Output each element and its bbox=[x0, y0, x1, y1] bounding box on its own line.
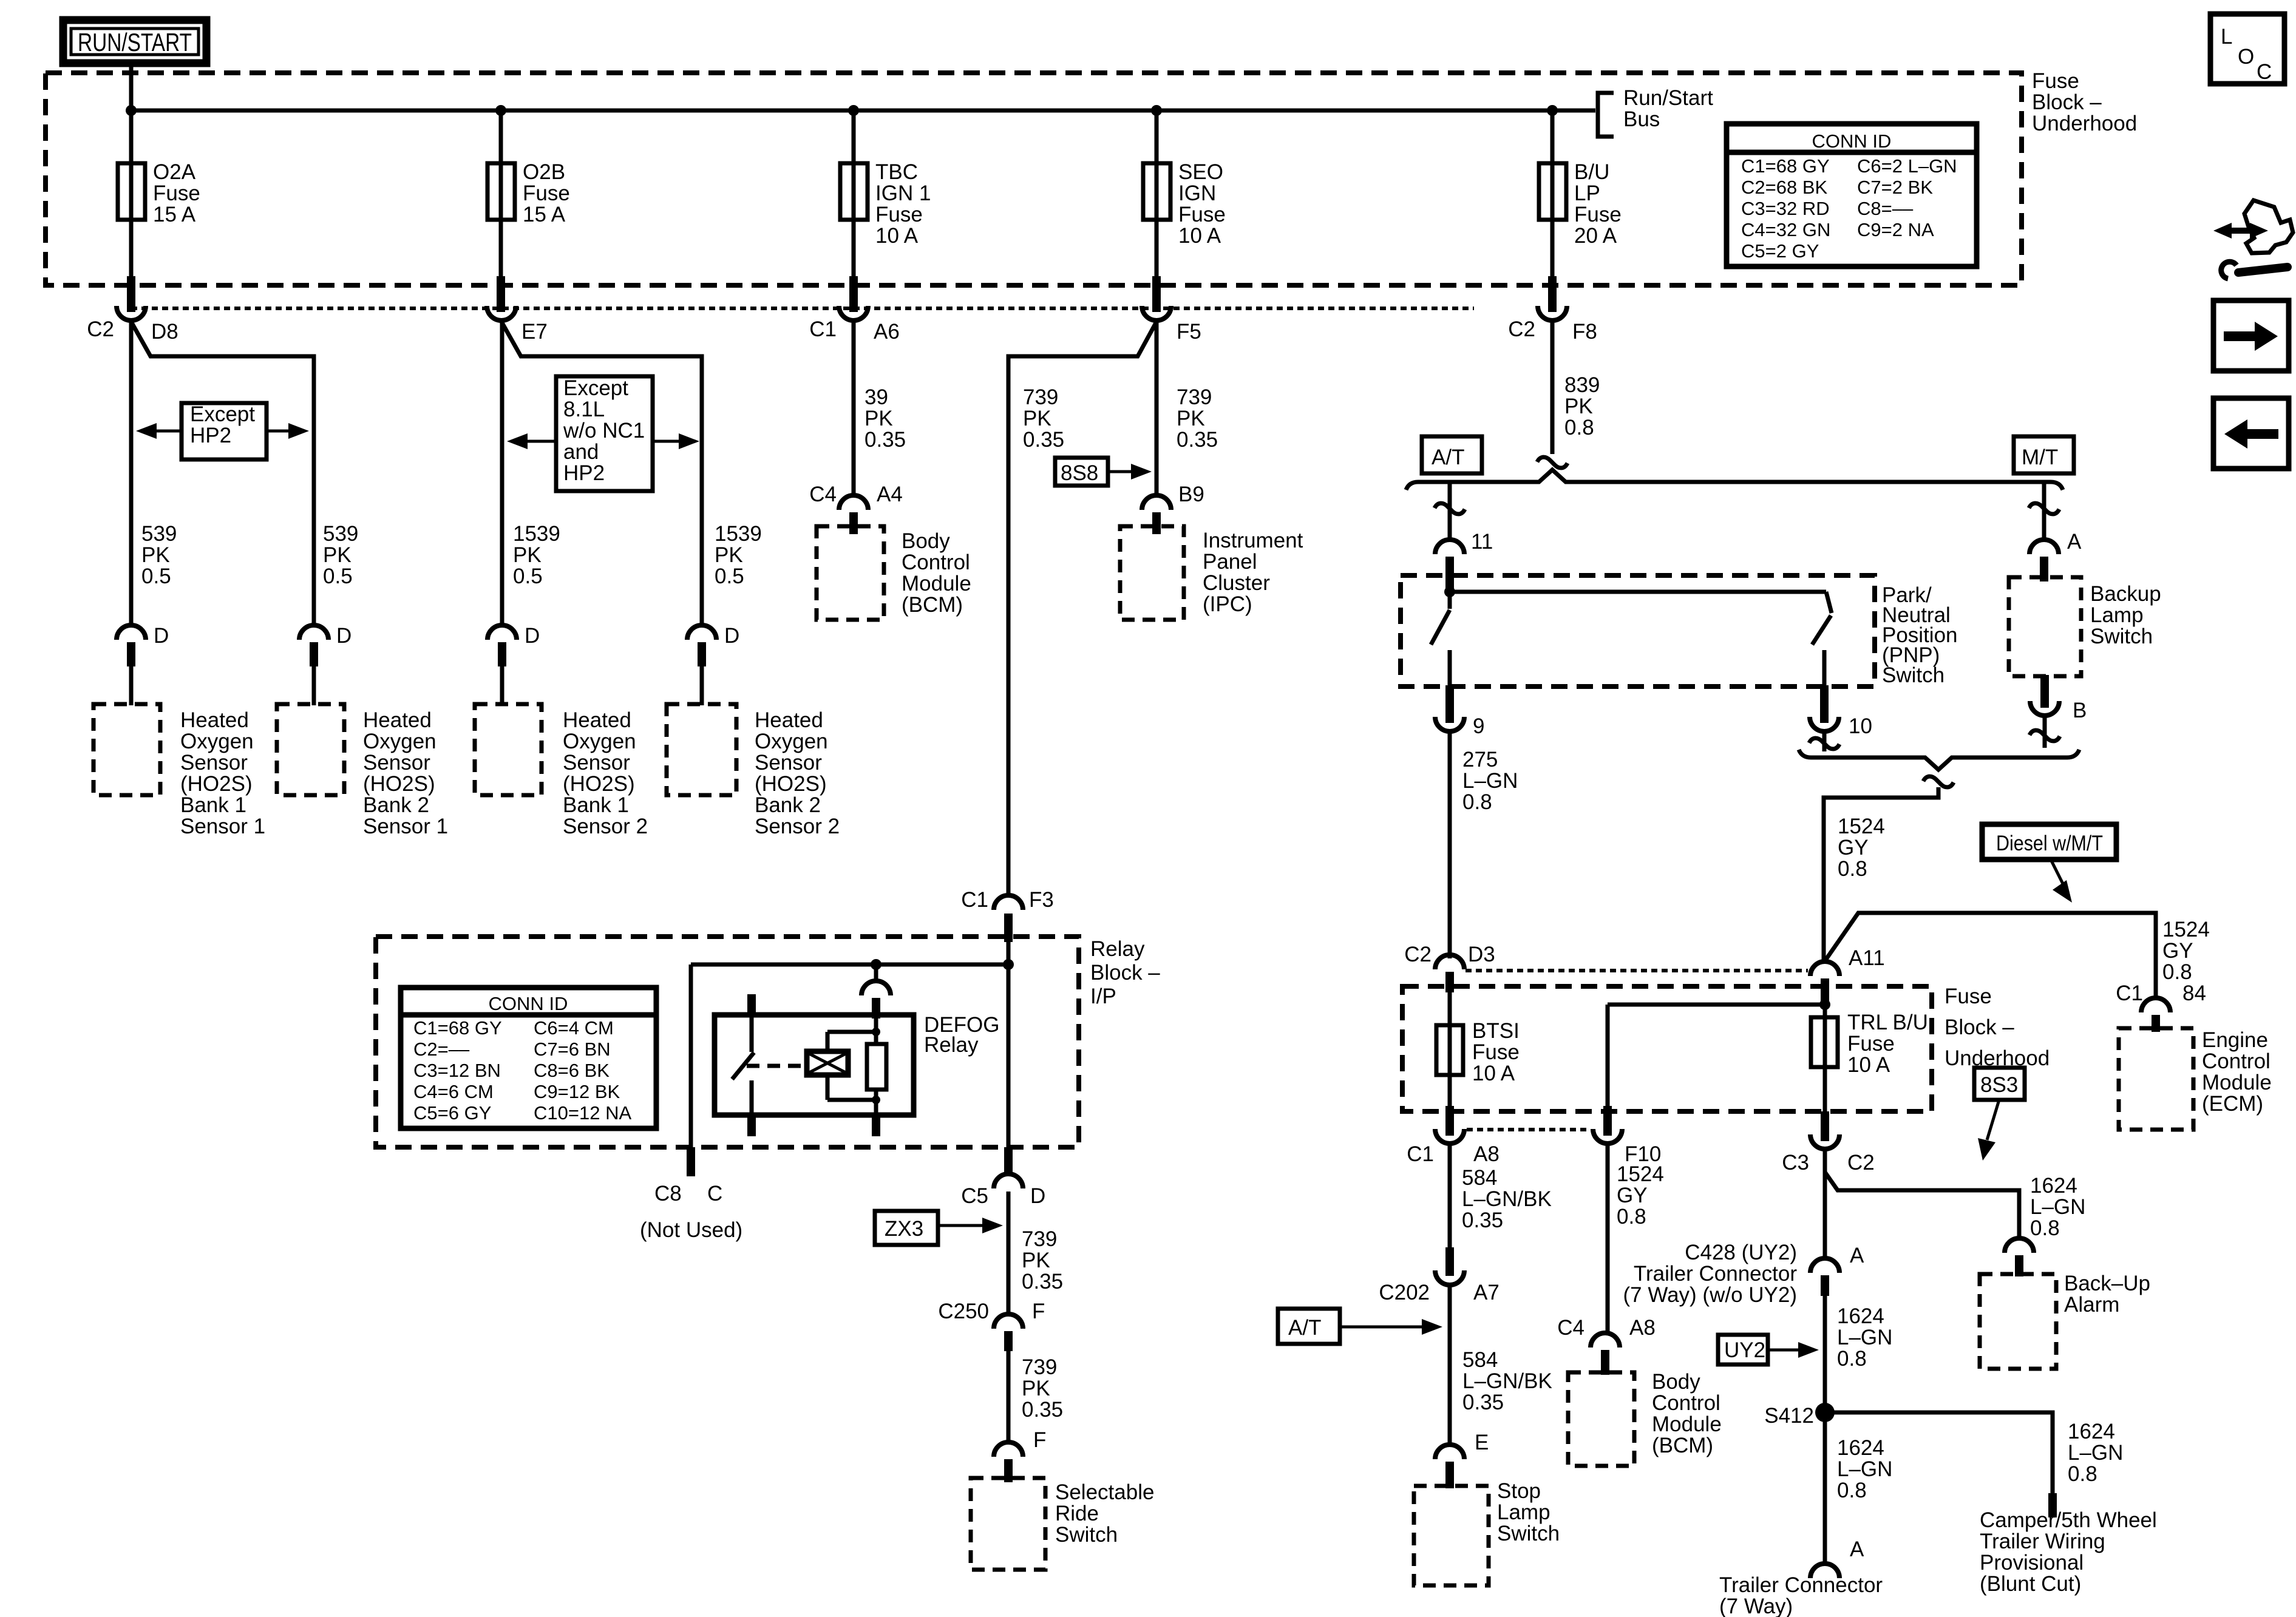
svg-text:C5=2 GY: C5=2 GY bbox=[1741, 240, 1819, 262]
svg-text:GY: GY bbox=[1838, 836, 1869, 859]
svg-text:C5=6 GY: C5=6 GY bbox=[413, 1102, 491, 1124]
connector stub below fuse SEO bbox=[1152, 276, 1161, 312]
svg-text:0.8: 0.8 bbox=[2068, 1462, 2097, 1486]
svg-text:C8=––: C8=–– bbox=[1857, 198, 1914, 219]
svg-text:Sensor 2: Sensor 2 bbox=[755, 815, 840, 838]
svg-text:F: F bbox=[1033, 1428, 1046, 1452]
DEFOG relay rectangle bbox=[715, 1015, 914, 1115]
svg-text:S412: S412 bbox=[1764, 1404, 1814, 1428]
svg-text:Oxygen: Oxygen bbox=[180, 730, 254, 753]
connector 9 cup bbox=[1435, 717, 1464, 731]
arrow A/T 2 bbox=[1340, 1326, 1427, 1329]
break M/T leg bbox=[2029, 503, 2059, 514]
svg-text:Engine: Engine bbox=[2202, 1028, 2268, 1052]
svg-text:Fuse: Fuse bbox=[1847, 1032, 1895, 1056]
svg-text:PK: PK bbox=[1564, 395, 1593, 418]
junction node A11 bbox=[1819, 999, 1830, 1010]
svg-text:D3: D3 bbox=[1468, 943, 1495, 966]
svg-text:(HO2S): (HO2S) bbox=[363, 772, 435, 796]
connector C3/C2 cup bbox=[1810, 1134, 1839, 1149]
connector D cup (col 2) bbox=[299, 625, 328, 640]
svg-text:0.5: 0.5 bbox=[715, 564, 744, 588]
svg-text:1524: 1524 bbox=[2162, 918, 2210, 941]
wire F8 down bbox=[1550, 322, 1555, 454]
wire M/T leg bbox=[2042, 482, 2046, 540]
arrow 8S3 bbox=[1987, 1100, 1999, 1140]
svg-text:A4: A4 bbox=[877, 483, 903, 506]
svg-text:Bank 1: Bank 1 bbox=[563, 793, 629, 817]
junction node PNP input bbox=[1444, 586, 1455, 597]
connector A cup (bottom) bbox=[1810, 1564, 1839, 1578]
svg-text:C3=12 BN: C3=12 BN bbox=[413, 1060, 501, 1081]
wire main inside relay block bbox=[1007, 942, 1011, 1149]
connector A cup (backup lamp) bbox=[2029, 540, 2059, 554]
svg-text:Lamp: Lamp bbox=[1497, 1500, 1550, 1524]
connector A cup (trailer) bbox=[1810, 1258, 1839, 1273]
svg-text:B/U: B/U bbox=[1574, 160, 1609, 184]
wire F10 down to BCM bbox=[1606, 1145, 1610, 1334]
svg-text:Fuse: Fuse bbox=[1472, 1040, 1520, 1064]
arrow 8S8 bbox=[1108, 470, 1136, 473]
svg-text:C1=68 GY: C1=68 GY bbox=[1741, 155, 1830, 177]
wire S412 down bbox=[1823, 1412, 1827, 1565]
svg-text:Module: Module bbox=[1652, 1412, 1722, 1436]
stub A trailer bbox=[1821, 1275, 1829, 1296]
svg-text:Block –: Block – bbox=[1090, 961, 1160, 985]
connector B cup bbox=[2030, 701, 2059, 716]
svg-text:10: 10 bbox=[1849, 714, 1872, 738]
svg-text:ZX3: ZX3 bbox=[885, 1217, 923, 1241]
connector F8 cup bbox=[1538, 306, 1567, 320]
svg-text:275: 275 bbox=[1462, 748, 1498, 771]
wire C202 down to E bbox=[1448, 1287, 1452, 1446]
svg-text:Lamp: Lamp bbox=[2090, 603, 2144, 627]
svg-text:C4: C4 bbox=[1557, 1316, 1584, 1340]
svg-text:1539: 1539 bbox=[513, 522, 560, 546]
wire diesel branch bbox=[1824, 913, 2156, 999]
svg-text:Body: Body bbox=[1652, 1370, 1700, 1394]
svg-text:C: C bbox=[2257, 60, 2272, 84]
svg-text:Bank 2: Bank 2 bbox=[363, 793, 429, 817]
relay switch blade bbox=[732, 1053, 754, 1079]
svg-text:Heated: Heated bbox=[755, 708, 823, 732]
relay block I/P dashed box bbox=[376, 937, 1079, 1147]
wire C250 to ride switch bbox=[1007, 1351, 1011, 1443]
svg-text:A7: A7 bbox=[1473, 1281, 1500, 1304]
svg-text:A8: A8 bbox=[1473, 1142, 1500, 1166]
instrument panel cluster IPC dashed box bbox=[1120, 526, 1184, 620]
svg-text:I/P: I/P bbox=[1090, 985, 1116, 1008]
connector C4/A4 cup bbox=[839, 495, 868, 510]
wire RUN/START to bus bbox=[129, 63, 134, 110]
A/T tag box 2 bbox=[1278, 1309, 1340, 1344]
backup lamp switch dashed box bbox=[2009, 577, 2081, 676]
junction node coil tap bbox=[871, 959, 881, 970]
svg-text:0.35: 0.35 bbox=[1022, 1398, 1063, 1422]
svg-text:(IPC): (IPC) bbox=[1203, 592, 1252, 616]
svg-text:C2: C2 bbox=[1404, 943, 1432, 966]
svg-text:L–GN: L–GN bbox=[2068, 1441, 2123, 1465]
A/T tag box bbox=[1422, 436, 1482, 473]
svg-text:D: D bbox=[336, 624, 352, 648]
hand with wrench icon bbox=[2222, 228, 2260, 234]
BTSI fuse bbox=[1436, 1025, 1463, 1075]
bus junction dots bbox=[126, 105, 137, 116]
connector C1/84 cup bbox=[2141, 998, 2170, 1012]
junction node main/relay bbox=[1003, 959, 1014, 970]
wire coil tap down bbox=[874, 964, 878, 981]
svg-text:739: 739 bbox=[1177, 385, 1212, 409]
svg-text:0.8: 0.8 bbox=[1617, 1205, 1646, 1229]
stub back-up alarm bbox=[2015, 1255, 2023, 1276]
svg-text:Backup: Backup bbox=[2090, 582, 2161, 606]
PNP right switch blade bbox=[1812, 615, 1831, 645]
svg-text:D: D bbox=[154, 624, 169, 648]
svg-text:739: 739 bbox=[1022, 1355, 1057, 1379]
connector boundary dotted line (A8-F10) bbox=[1467, 1128, 1591, 1131]
svg-text:CONN ID: CONN ID bbox=[1812, 131, 1892, 152]
svg-text:C5: C5 bbox=[961, 1184, 988, 1208]
svg-text:0.35: 0.35 bbox=[864, 428, 906, 452]
svg-text:Camper/5th Wheel: Camper/5th Wheel bbox=[1980, 1508, 2157, 1532]
svg-text:IGN 1: IGN 1 bbox=[875, 181, 931, 205]
wire branch D8 to bank2 sensor1 bbox=[131, 322, 314, 626]
wire main trailer down bbox=[1823, 1151, 1827, 1259]
wire C2/D8 down to sensor 1 bbox=[129, 322, 134, 626]
wire C3/C2 branch to alarm bbox=[1825, 1151, 2019, 1239]
svg-text:C3: C3 bbox=[1782, 1151, 1809, 1175]
svg-text:8.1L: 8.1L bbox=[563, 398, 605, 421]
svg-text:and: and bbox=[563, 440, 599, 464]
connector stub below fuse O2A bbox=[127, 276, 135, 312]
stub C8 leg bbox=[687, 1147, 695, 1176]
svg-text:10 A: 10 A bbox=[1472, 1062, 1515, 1085]
PNP right switch bend bbox=[1826, 592, 1832, 613]
svg-text:F: F bbox=[1032, 1300, 1045, 1323]
svg-text:1524: 1524 bbox=[1617, 1162, 1664, 1186]
svg-text:Sensor: Sensor bbox=[363, 751, 430, 775]
wire fuse drop at x=825 bbox=[499, 110, 503, 280]
connector C250/F cup bbox=[994, 1314, 1023, 1329]
stub 9 bbox=[1445, 685, 1454, 723]
svg-text:0.35: 0.35 bbox=[1177, 428, 1218, 452]
S412 splice dot bbox=[1815, 1403, 1835, 1422]
svg-text:0.8: 0.8 bbox=[1837, 1347, 1867, 1371]
svg-text:Sensor 1: Sensor 1 bbox=[363, 815, 448, 838]
svg-text:0.8: 0.8 bbox=[2030, 1216, 2060, 1240]
svg-text:GY: GY bbox=[1617, 1184, 1648, 1207]
fuse SEO IGN Fuse 10 A bbox=[1143, 163, 1170, 220]
svg-text:Module: Module bbox=[2202, 1071, 2272, 1094]
stub C4/A8 BCM bbox=[1601, 1350, 1609, 1375]
svg-text:L: L bbox=[2221, 25, 2232, 49]
ZX3 tag box bbox=[875, 1211, 938, 1245]
svg-text:10 A: 10 A bbox=[875, 224, 919, 248]
svg-text:Body: Body bbox=[902, 529, 950, 553]
svg-text:C3=32 RD: C3=32 RD bbox=[1741, 198, 1830, 219]
svg-text:SEO: SEO bbox=[1178, 160, 1223, 184]
engine control module ECM dashed box bbox=[2119, 1028, 2193, 1130]
stub C3/C2 bbox=[1821, 1111, 1829, 1141]
arrow Except 8.1L right bbox=[653, 440, 684, 443]
svg-text:Oxygen: Oxygen bbox=[755, 730, 828, 753]
svg-text:Fuse: Fuse bbox=[1574, 203, 1622, 226]
svg-text:F5: F5 bbox=[1177, 320, 1201, 344]
wire 10 leg down bbox=[1822, 733, 1827, 751]
svg-text:Relay: Relay bbox=[924, 1033, 979, 1057]
svg-text:539: 539 bbox=[323, 522, 358, 546]
svg-text:C: C bbox=[707, 1182, 722, 1205]
svg-text:E: E bbox=[1475, 1431, 1489, 1454]
junction node coil bottom bbox=[872, 1096, 880, 1104]
relay switch bottom pin bbox=[747, 1114, 756, 1136]
relay switch top pin bbox=[747, 994, 756, 1017]
svg-text:Cluster: Cluster bbox=[1203, 571, 1270, 595]
stub 11 into PNP bbox=[1445, 557, 1454, 590]
svg-text:11: 11 bbox=[1471, 530, 1493, 554]
relay coil bottom pin bbox=[872, 1114, 880, 1136]
svg-text:Fuse: Fuse bbox=[1178, 203, 1226, 226]
svg-text:Heated: Heated bbox=[363, 708, 432, 732]
svg-text:Sensor 1: Sensor 1 bbox=[180, 815, 265, 838]
svg-text:Provisional: Provisional bbox=[1980, 1551, 2084, 1575]
svg-text:HP2: HP2 bbox=[563, 461, 605, 485]
arrow Except HP2 left bbox=[152, 430, 182, 433]
svg-text:Fuse: Fuse bbox=[2032, 69, 2079, 93]
relay coil bottom wire bbox=[874, 1100, 878, 1115]
wire F10 drop bbox=[1606, 1005, 1610, 1107]
svg-text:CONN ID: CONN ID bbox=[489, 993, 568, 1014]
svg-text:10 A: 10 A bbox=[1178, 224, 1221, 248]
svg-text:Except: Except bbox=[190, 402, 255, 426]
svg-text:Run/Start: Run/Start bbox=[1623, 86, 1713, 110]
stub A11 bbox=[1821, 978, 1829, 1002]
relay coil box symbol bbox=[807, 1051, 848, 1075]
svg-text:Relay: Relay bbox=[1090, 937, 1145, 961]
svg-text:584: 584 bbox=[1462, 1348, 1498, 1372]
svg-text:C2: C2 bbox=[87, 317, 114, 341]
svg-text:C8: C8 bbox=[654, 1182, 682, 1205]
svg-text:Switch: Switch bbox=[1882, 663, 1944, 687]
svg-text:Ride: Ride bbox=[1055, 1502, 1099, 1525]
stub relay coil bbox=[872, 998, 880, 1019]
svg-text:C1: C1 bbox=[961, 888, 988, 912]
junction node coil top bbox=[872, 1028, 880, 1036]
CONN ID table (fuse block underhood) bbox=[1727, 124, 1977, 266]
svg-text:O2B: O2B bbox=[523, 160, 565, 184]
svg-text:Stop: Stop bbox=[1497, 1479, 1541, 1503]
svg-text:TRL B/U: TRL B/U bbox=[1847, 1011, 1928, 1034]
wire C5/D to C250 bbox=[1007, 1192, 1011, 1314]
svg-text:A/T: A/T bbox=[1432, 446, 1464, 469]
svg-text:Trailer Connector: Trailer Connector bbox=[1634, 1262, 1797, 1286]
svg-text:C7=6 BN: C7=6 BN bbox=[534, 1039, 611, 1060]
svg-text:C9=12 BK: C9=12 BK bbox=[534, 1081, 620, 1102]
svg-text:PK: PK bbox=[715, 543, 743, 567]
svg-text:A: A bbox=[1850, 1537, 1864, 1561]
svg-text:(7 Way): (7 Way) bbox=[1719, 1595, 1793, 1617]
svg-text:O: O bbox=[2238, 45, 2254, 69]
svg-text:D8: D8 bbox=[151, 320, 178, 344]
svg-text:C6=4 CM: C6=4 CM bbox=[534, 1017, 614, 1039]
connector F5 cup bbox=[1142, 306, 1171, 320]
stub C1/84 bbox=[2152, 1015, 2160, 1032]
svg-text:(BCM): (BCM) bbox=[1652, 1434, 1713, 1457]
svg-text:C2: C2 bbox=[1847, 1151, 1875, 1175]
svg-text:C250: C250 bbox=[938, 1300, 989, 1323]
8S3 tag box bbox=[1974, 1068, 2025, 1100]
Diesel w/M/T tag box bbox=[1982, 824, 2116, 859]
svg-text:HP2: HP2 bbox=[190, 424, 231, 447]
wire horizontal inside relay block bbox=[691, 963, 1008, 967]
svg-text:LP: LP bbox=[1574, 181, 1600, 205]
svg-text:L–GN: L–GN bbox=[2030, 1195, 2085, 1219]
connector C5/D cup bbox=[994, 1174, 1023, 1188]
stub B bbox=[2040, 675, 2049, 708]
svg-text:Bus: Bus bbox=[1623, 107, 1660, 131]
relay switch wire bbox=[750, 1017, 754, 1052]
stub F ride switch bbox=[1004, 1459, 1013, 1482]
connector 11 cup bbox=[1435, 540, 1464, 554]
svg-text:(Not Used): (Not Used) bbox=[640, 1218, 742, 1242]
stub C1/F3 into relay block bbox=[1004, 914, 1013, 942]
svg-text:1624: 1624 bbox=[2068, 1420, 2115, 1443]
svg-text:L–GN/BK: L–GN/BK bbox=[1462, 1369, 1552, 1393]
svg-text:84: 84 bbox=[2182, 981, 2206, 1005]
svg-text:L–GN: L–GN bbox=[1462, 769, 1518, 793]
wire into HO2S box col 1 bbox=[129, 666, 134, 705]
svg-text:D: D bbox=[1030, 1184, 1045, 1208]
stub E bbox=[1445, 1462, 1454, 1488]
arrow Except 8.1L left bbox=[523, 440, 556, 443]
connector boundary dotted line (D3 to A11) bbox=[1466, 969, 1808, 972]
arrow ZX3 bbox=[938, 1224, 987, 1227]
break A/T leg bbox=[1435, 503, 1465, 514]
stub F10 bbox=[1603, 1106, 1612, 1136]
connector A11 cup bbox=[1810, 961, 1839, 976]
back-up alarm dashed box bbox=[1980, 1274, 2056, 1369]
wire 9 leg down bbox=[1448, 733, 1452, 958]
svg-text:Instrument: Instrument bbox=[1203, 529, 1303, 552]
relay linkage dashes bbox=[747, 1064, 805, 1068]
svg-text:C202: C202 bbox=[1379, 1281, 1430, 1304]
svg-text:0.35: 0.35 bbox=[1023, 428, 1064, 452]
svg-text:PK: PK bbox=[1023, 407, 1051, 430]
svg-text:RUN/START: RUN/START bbox=[78, 28, 192, 56]
svg-text:(7 Way) (w/o UY2): (7 Way) (w/o UY2) bbox=[1623, 1283, 1797, 1307]
svg-text:F8: F8 bbox=[1572, 320, 1597, 344]
wire fuse drop at x=216 bbox=[129, 110, 134, 280]
heated oxygen sensor HO2S Bank 2 Sensor 1 dashed box bbox=[277, 704, 344, 795]
connector F10 cup bbox=[1593, 1129, 1622, 1144]
break 10 leg bbox=[1809, 738, 1839, 749]
connector D cup (col 4) bbox=[687, 625, 716, 640]
svg-text:9: 9 bbox=[1473, 714, 1484, 738]
wire merge down and left bbox=[1824, 787, 1938, 963]
svg-text:Fuse: Fuse bbox=[875, 203, 923, 226]
svg-text:BTSI: BTSI bbox=[1472, 1019, 1520, 1043]
svg-text:PK: PK bbox=[1177, 407, 1205, 430]
break B leg bbox=[2029, 730, 2060, 741]
svg-text:PK: PK bbox=[864, 407, 893, 430]
svg-text:C7=2 BK: C7=2 BK bbox=[1857, 177, 1933, 198]
wire PNP internal horizontal bbox=[1450, 590, 1826, 594]
svg-text:(HO2S): (HO2S) bbox=[180, 772, 253, 796]
connector boundary dotted line (C2/E7/C1/F5) bbox=[131, 307, 1474, 310]
svg-text:0.8: 0.8 bbox=[1564, 416, 1594, 439]
svg-text:Diesel w/M/T: Diesel w/M/T bbox=[1996, 832, 2103, 855]
svg-text:Block –: Block – bbox=[2032, 90, 2102, 114]
svg-text:Switch: Switch bbox=[1497, 1522, 1560, 1545]
svg-text:PK: PK bbox=[513, 543, 542, 567]
svg-text:Control: Control bbox=[2202, 1049, 2271, 1073]
RUN/START tag box bbox=[63, 20, 206, 63]
svg-text:739: 739 bbox=[1022, 1227, 1057, 1251]
wire F5 down to IPC bbox=[1155, 322, 1159, 497]
PNP right switch lower wire bbox=[1822, 650, 1827, 688]
connector C1/F3 cup bbox=[994, 895, 1023, 910]
8S8 tag box bbox=[1055, 458, 1108, 486]
svg-text:Control: Control bbox=[1652, 1391, 1720, 1415]
wire branch E7 to bank2 sensor2 bbox=[501, 322, 702, 626]
stub 10 bbox=[1820, 685, 1829, 723]
connector C4/A8 cup (BCM) bbox=[1591, 1333, 1620, 1347]
svg-text:C4: C4 bbox=[809, 483, 837, 506]
svg-text:(Blunt Cut): (Blunt Cut) bbox=[1980, 1572, 2081, 1596]
connector D cup (col 1) bbox=[117, 625, 146, 640]
svg-text:1624: 1624 bbox=[1837, 1436, 1884, 1460]
stub relay main out bbox=[1004, 1147, 1013, 1174]
svg-text:1624: 1624 bbox=[1837, 1304, 1884, 1328]
right arrow box icon bbox=[2213, 300, 2289, 371]
connector C202/A7 cup bbox=[1435, 1270, 1464, 1285]
park neutral position PNP switch dashed box bbox=[1401, 575, 1875, 686]
svg-text:Underhood: Underhood bbox=[2032, 112, 2137, 135]
svg-text:C10=12 NA: C10=12 NA bbox=[534, 1102, 631, 1124]
svg-text:C6=2 L–GN: C6=2 L–GN bbox=[1857, 155, 1957, 177]
wire C1/A6 down to BCM bbox=[852, 322, 856, 497]
svg-text:GY: GY bbox=[2162, 939, 2193, 963]
svg-text:0.35: 0.35 bbox=[1462, 1209, 1503, 1232]
svg-text:IGN: IGN bbox=[1178, 181, 1216, 205]
svg-text:Panel: Panel bbox=[1203, 550, 1257, 574]
svg-text:(HO2S): (HO2S) bbox=[563, 772, 635, 796]
svg-text:1539: 1539 bbox=[715, 522, 762, 546]
svg-text:Except: Except bbox=[563, 376, 628, 400]
body control module BCM dashed box bbox=[817, 526, 884, 620]
heated oxygen sensor HO2S Bank 1 Sensor 2 dashed box bbox=[475, 704, 542, 795]
svg-text:w/o NC1: w/o NC1 bbox=[563, 419, 645, 442]
svg-text:15 A: 15 A bbox=[153, 203, 196, 226]
svg-text:(HO2S): (HO2S) bbox=[755, 772, 827, 796]
break below merge brace bbox=[1923, 776, 1954, 787]
wire break symbol above brace bbox=[1537, 457, 1567, 468]
svg-text:PK: PK bbox=[323, 543, 352, 567]
svg-text:M/T: M/T bbox=[2022, 446, 2058, 469]
svg-text:Sensor: Sensor bbox=[755, 751, 822, 775]
svg-text:C2=68 BK: C2=68 BK bbox=[1741, 177, 1828, 198]
selectable ride switch dashed box bbox=[971, 1478, 1045, 1570]
svg-text:Fuse: Fuse bbox=[153, 181, 200, 205]
wire BTSI drop bbox=[1448, 992, 1452, 1107]
svg-text:Switch: Switch bbox=[1055, 1523, 1118, 1547]
svg-text:0.8: 0.8 bbox=[2162, 960, 2192, 984]
CONN ID table (relay block) bbox=[401, 988, 656, 1128]
PNP left switch blade bbox=[1448, 592, 1452, 609]
svg-text:C8=6 BK: C8=6 BK bbox=[534, 1060, 610, 1081]
connector E cup bbox=[1435, 1445, 1464, 1459]
svg-text:PK: PK bbox=[141, 543, 170, 567]
